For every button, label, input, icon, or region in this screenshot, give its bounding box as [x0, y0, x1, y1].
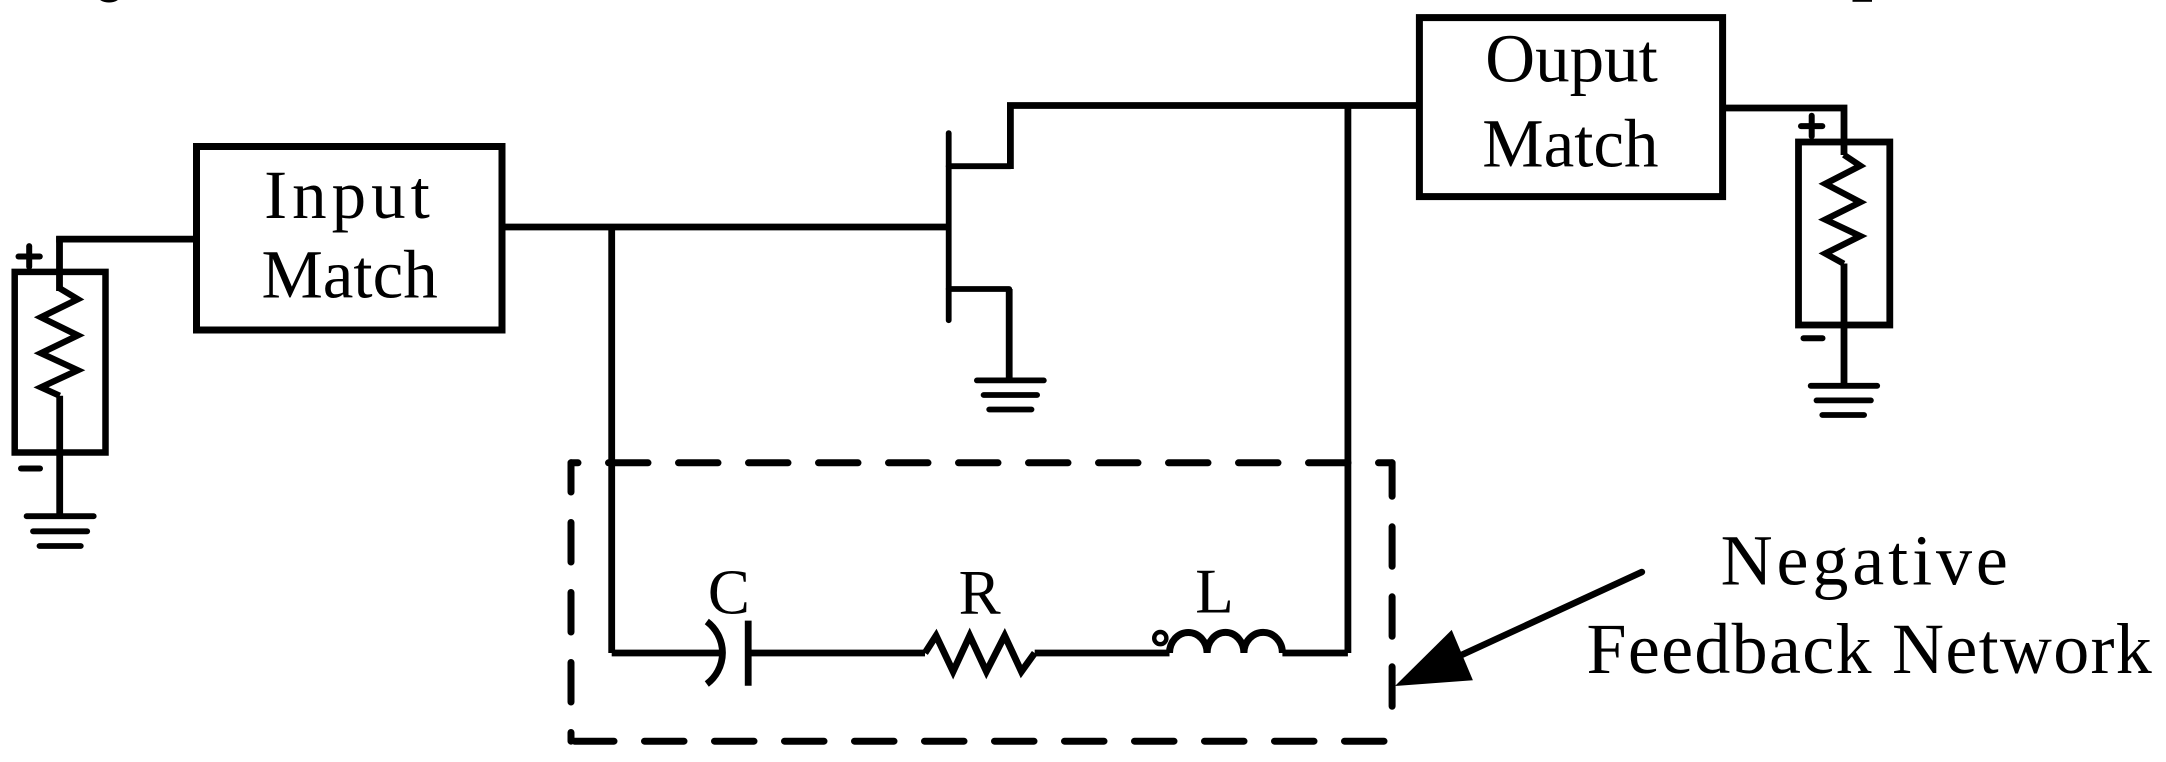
port P2 - label [1804, 335, 1823, 341]
ground (load) [1811, 386, 1878, 415]
wire source top (vertical) [56, 236, 63, 291]
load box [1799, 142, 1890, 325]
wire Ouput Match to load [1723, 108, 1844, 155]
resistor RS (source) [41, 288, 78, 396]
source box [15, 272, 106, 453]
polarity dot (inductor) [1154, 632, 1166, 644]
inductor L [1170, 632, 1283, 653]
arrow annotation [1455, 572, 1642, 658]
wire R to L [1035, 650, 1170, 657]
wire C to R [748, 650, 925, 657]
svg-text:C: C [708, 557, 750, 627]
wire drain node to feedback network [1345, 106, 1352, 654]
wire source down to ground [1006, 289, 1013, 380]
wire gate node to feedback network [608, 227, 615, 653]
dashed box feedback network [571, 463, 1392, 741]
label Negative Feedback Network [1586, 521, 2153, 689]
svg-text:Feedback Network: Feedback Network [1586, 609, 2153, 689]
wire feedback chain left [612, 650, 720, 657]
stray mark top-left (cropped text remnant) [98, 0, 121, 3]
ground (source) [27, 516, 94, 546]
ground (FET source) [977, 380, 1044, 409]
svg-text:Match: Match [1482, 106, 1658, 182]
wire load to ground [1841, 264, 1848, 386]
stray mark top-right (cropped text remnant) [1853, 0, 1873, 2]
port P1 + label [19, 246, 40, 267]
wire drain up [1010, 106, 1419, 170]
block Input Match [197, 147, 503, 331]
svg-text:Ouput: Ouput [1485, 21, 1658, 97]
resistor RL (load) [1825, 155, 1860, 264]
svg-text:Negative: Negative [1721, 521, 2012, 601]
wire Input Match to gate [502, 224, 946, 231]
svg-text:R: R [959, 558, 1001, 628]
svg-text:Input: Input [264, 157, 435, 233]
wire L to right vertical [1282, 650, 1348, 657]
port P1 - label [21, 466, 40, 472]
capacitor C [707, 621, 748, 686]
transistor Q1 (FET) [949, 133, 1011, 320]
svg-text:L: L [1195, 556, 1233, 626]
wire source to ground [56, 396, 63, 516]
resistor R [925, 636, 1035, 672]
svg-text:Match: Match [261, 237, 437, 313]
port P2 + label [1801, 116, 1822, 137]
wire source to Input Match [56, 236, 196, 243]
block Ouput Match [1419, 18, 1722, 197]
